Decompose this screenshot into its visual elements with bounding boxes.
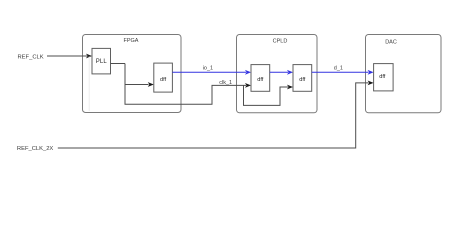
dff U8 (DAC) <box>374 64 394 91</box>
net d_1 wire <box>312 71 369 73</box>
dff U6 (CPLD first) <box>251 65 270 92</box>
svg-text:REF_CLK_2X: REF_CLK_2X <box>17 146 54 152</box>
CPLD block U2 <box>237 35 318 113</box>
dff U7 (CPLD second) <box>293 65 312 92</box>
wire PLL output <box>111 63 126 65</box>
svg-text:dff: dff <box>379 74 386 80</box>
ghost line (faint) <box>88 57 90 112</box>
svg-text:PLL: PLL <box>96 59 108 65</box>
DAC block U3 <box>366 35 442 113</box>
FPGA block U1 <box>83 35 182 113</box>
net clk_1 wire (PLL output routed to CPLD) <box>125 64 246 105</box>
wire CPLD clock routing <box>244 85 289 105</box>
wire branch to dff clock <box>125 84 149 86</box>
svg-text:d_1: d_1 <box>334 65 343 71</box>
wire REF_CLK_2X to DAC dff clock <box>58 83 369 148</box>
PLL U4 <box>92 48 111 74</box>
svg-text:dff: dff <box>160 77 167 83</box>
net io_1 wire <box>172 71 246 73</box>
wire dff1 to dff2 <box>270 71 288 73</box>
dff U5 (FPGA) <box>154 63 173 92</box>
svg-text:CPLD: CPLD <box>273 38 288 44</box>
svg-text:FPGA: FPGA <box>124 38 139 44</box>
svg-text:REF_CLK: REF_CLK <box>18 54 44 60</box>
wire REF_CLK input <box>47 55 87 57</box>
svg-text:dff: dff <box>257 77 264 83</box>
svg-text:io_1: io_1 <box>203 66 213 72</box>
svg-text:DAC: DAC <box>385 40 397 46</box>
svg-text:clk_1: clk_1 <box>219 80 232 86</box>
svg-text:dff: dff <box>299 77 306 83</box>
